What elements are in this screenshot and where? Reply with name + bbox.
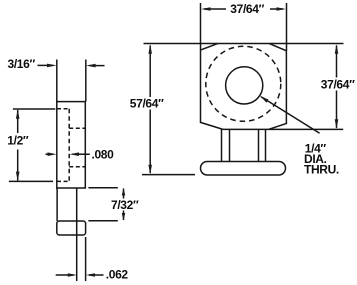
svg-text:37/64″: 37/64″ xyxy=(321,77,355,91)
dimension 57/64 bottom extension line xyxy=(142,174,195,176)
svg-text:7/32″: 7/32″ xyxy=(111,198,139,212)
front view left leg xyxy=(221,129,223,161)
dimension 3/16 left arrow xyxy=(38,64,54,66)
dimension 3/16 right arrow xyxy=(90,65,105,67)
dimension .062 right arrow with tail xyxy=(89,274,104,276)
side view stem right edge xyxy=(76,188,78,281)
dimension 7/32 bottom extension line xyxy=(88,220,117,222)
front view body outline xyxy=(201,43,287,129)
front view base (stadium) xyxy=(201,162,286,176)
front view hole circle xyxy=(226,67,263,104)
dimension 37/64 top left arrow xyxy=(204,8,226,10)
svg-text:.080: .080 xyxy=(92,147,115,161)
dimension .080 left arrow xyxy=(46,153,54,155)
dimension 37/64 top right arrow xyxy=(270,8,283,10)
dimension .080 right arrow with tail xyxy=(73,153,90,155)
dimension 37/64 right dim line lower xyxy=(336,91,338,129)
side view hidden recess top tangent (dashed) xyxy=(57,108,69,110)
svg-text:1/2″: 1/2″ xyxy=(7,133,29,147)
svg-text:3/16″: 3/16″ xyxy=(8,57,36,71)
dimension 1/2 bottom extension line xyxy=(9,180,53,182)
svg-text:57/64″: 57/64″ xyxy=(130,96,164,110)
dimension 57/64 dim line upper xyxy=(149,46,151,98)
side view hidden recess depth line (dashed vertical) xyxy=(68,109,70,182)
dimension 37/64 top left extension line xyxy=(200,3,202,50)
side view hidden hole bottom tangent (dashed) xyxy=(69,166,85,168)
front view bottom edge xyxy=(223,128,343,130)
svg-text:THRU.: THRU. xyxy=(304,163,339,177)
side view hidden recess bottom tangent (dashed) xyxy=(57,180,69,182)
dimension 1/2 top extension line xyxy=(13,108,55,110)
dimension 37/64 top right extension line xyxy=(286,3,288,51)
dimension 37/64 right dim line upper xyxy=(336,46,338,78)
dimension 1/2 dim line lower xyxy=(17,150,19,181)
dimension 7/32 dim line upper arrow xyxy=(123,189,125,199)
dimension 7/32 top extension line xyxy=(88,187,117,189)
dimension 3/16 left extension line xyxy=(56,60,58,102)
dimension 3/16 right extension line xyxy=(85,60,87,102)
dimension 57/64 dim line lower xyxy=(149,110,151,174)
leader line to hole xyxy=(261,97,320,134)
dimension .062 right extension line xyxy=(85,237,87,281)
side view body rectangle xyxy=(57,102,86,188)
svg-text:37/64″: 37/64″ xyxy=(230,2,264,16)
front view right leg xyxy=(258,129,260,161)
dimension 1/2 dim line upper xyxy=(17,110,19,133)
side view hidden hole top tangent (dashed) xyxy=(69,127,85,129)
svg-text:.062: .062 xyxy=(106,268,129,282)
side view stem left edge xyxy=(56,188,58,221)
dimension 7/32 dim line lower arrow xyxy=(123,211,125,221)
side view base rectangle xyxy=(57,221,86,235)
dimension .062 left arrow xyxy=(56,274,74,276)
front view recess circle (dashed) xyxy=(206,46,281,121)
front view top edge with both extension lines (long horizontal) xyxy=(144,43,344,45)
